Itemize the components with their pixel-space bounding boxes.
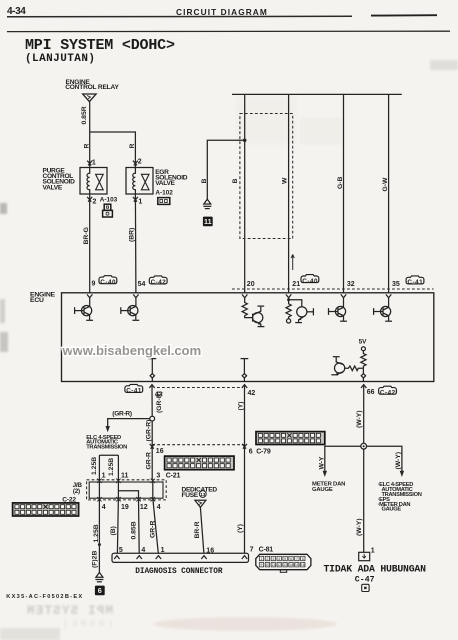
- purge valve symbol: [96, 174, 104, 190]
- wire pin 35 to transistor: [388, 298, 390, 308]
- svg-text:C-40: C-40: [100, 279, 116, 286]
- svg-text:CONTROL RELAY: CONTROL RELAY: [65, 84, 119, 91]
- terminal box C-47: [359, 552, 370, 560]
- connector label C-41 at pin 43: [125, 384, 143, 394]
- svg-text:MPI SYSTEM: MPI SYSTEM: [27, 604, 113, 618]
- svg-text:TIDAK ADA HUBUNGAN: TIDAK ADA HUBUNGAN: [324, 564, 427, 575]
- svg-text:A-102: A-102: [155, 189, 173, 196]
- svg-text:2: 2: [266, 557, 268, 561]
- svg-text:VALVE: VALVE: [43, 184, 63, 191]
- svg-text:1.25B: 1.25B: [93, 524, 100, 542]
- wire pin 54 to transistor: [135, 298, 137, 307]
- svg-text:13: 13: [283, 563, 287, 567]
- connector icon A-103: [103, 204, 113, 217]
- svg-text:66: 66: [367, 389, 375, 396]
- wire GR-R continues: [151, 421, 153, 480]
- svg-text:C-81: C-81: [259, 547, 274, 554]
- dashed connector row to C-79: [152, 444, 244, 446]
- svg-text:(W-Y): (W-Y): [395, 452, 402, 470]
- transistor Q7: [331, 357, 344, 375]
- svg-text:MPI SYSTEM <DOHC>: MPI SYSTEM <DOHC>: [25, 37, 175, 54]
- pin 21 entry arrow: [286, 294, 291, 297]
- svg-text:KX35-AC-F0502B-EX: KX35-AC-F0502B-EX: [6, 594, 82, 600]
- transistor Q6: [374, 306, 392, 321]
- wire W to ECU pin 21: [288, 94, 290, 292]
- svg-text:C-40: C-40: [302, 278, 318, 285]
- svg-text:15: 15: [295, 563, 299, 567]
- wire B to ECU pin 20: [244, 94, 246, 292]
- svg-text:11: 11: [272, 563, 276, 567]
- junction block inner box: [89, 482, 163, 498]
- transistor Q4: [289, 300, 314, 323]
- branch wire to ELC transmission: [108, 419, 150, 427]
- resistor R1 on pin 20: [242, 298, 253, 318]
- svg-text:6: 6: [249, 449, 253, 456]
- connector strip C-22: [13, 503, 79, 516]
- svg-text:C-41: C-41: [407, 279, 423, 286]
- svg-text:(Y): (Y): [238, 401, 245, 410]
- branch arrowhead: [106, 426, 110, 432]
- ground symbol 11: [203, 199, 211, 208]
- wire B to diagnosis pin 5: [117, 498, 118, 553]
- svg-text:16: 16: [206, 547, 214, 554]
- svg-text:2: 2: [138, 158, 142, 165]
- svg-text:16: 16: [301, 563, 305, 567]
- wire pin 32 to transistor: [343, 298, 345, 308]
- svg-text:1: 1: [161, 547, 165, 554]
- connector strip C-21: [165, 456, 234, 470]
- junction node pin 21: [287, 298, 290, 301]
- resistor R2 on pin 21: [286, 298, 291, 319]
- internal stub to pin 42: [241, 359, 249, 382]
- svg-text:13: 13: [200, 492, 206, 497]
- svg-text:19: 19: [121, 504, 129, 511]
- wire GR-R to diagnosis pin 1: [153, 498, 159, 553]
- svg-text:3: 3: [156, 473, 160, 480]
- wire W-Y continues down: [363, 449, 365, 552]
- svg-text:(W-Y): (W-Y): [356, 518, 363, 536]
- svg-text:32: 32: [347, 281, 355, 288]
- connector strip C-79: [256, 432, 325, 445]
- svg-text:54: 54: [138, 281, 146, 288]
- EGR valve coil: [133, 168, 136, 195]
- svg-text:1: 1: [102, 472, 106, 479]
- purge valve coil: [87, 168, 90, 195]
- pin 54 entry arrow: [133, 294, 138, 297]
- svg-text:W-Y: W-Y: [319, 456, 326, 470]
- wire W-Y from pin 66: [363, 385, 365, 444]
- transistor Q2: [121, 306, 139, 321]
- svg-text:1: 1: [138, 199, 142, 206]
- ECU bottom dashed pin row: [157, 387, 240, 389]
- dashed harness box: [240, 114, 293, 239]
- svg-text:1: 1: [261, 557, 263, 561]
- wire 0.85B to diagnosis pin 4: [138, 498, 141, 553]
- svg-text:4-34: 4-34: [7, 6, 26, 17]
- continuation arrow beside wire W: [291, 255, 294, 271]
- ECU connector dashed row: [232, 288, 434, 290]
- terminal circle below R2: [287, 319, 291, 323]
- svg-text:42: 42: [248, 390, 256, 397]
- svg-text:2: 2: [93, 199, 97, 206]
- svg-text:GAUGE: GAUGE: [312, 487, 333, 493]
- svg-text:5: 5: [284, 557, 286, 561]
- svg-text:10: 10: [266, 563, 270, 567]
- connector icon A-102: [158, 198, 170, 205]
- svg-text:(W-Y): (W-Y): [356, 410, 363, 428]
- svg-text:5: 5: [119, 547, 123, 554]
- connector icon C-47: [362, 584, 369, 591]
- wire 0.85R from relay: [89, 102, 91, 132]
- connector label C-40 at pin 21: [301, 275, 319, 285]
- svg-text:7: 7: [296, 557, 298, 561]
- header underline left segment: [7, 15, 352, 18]
- svg-text:(BR): (BR): [128, 228, 135, 242]
- branch wire to ELC EPS meter: [367, 446, 402, 471]
- svg-text:9: 9: [92, 281, 96, 288]
- svg-text:(F)2B: (F)2B: [91, 551, 98, 568]
- svg-text:9: 9: [261, 563, 263, 567]
- svg-text:DIAGNOSIS CONNECTOR: DIAGNOSIS CONNECTOR: [135, 568, 223, 576]
- svg-text:6: 6: [98, 586, 102, 595]
- svg-text:11: 11: [204, 217, 212, 226]
- svg-text:R: R: [83, 144, 90, 149]
- svg-text:BR-G: BR-G: [83, 227, 90, 244]
- connector label C-42 at pin 54: [149, 276, 167, 286]
- EGR solenoid valve box: [126, 168, 153, 195]
- transistor Q1: [75, 306, 93, 321]
- svg-text:21: 21: [292, 281, 300, 288]
- svg-text:(2): (2): [73, 488, 80, 495]
- resistor R3 below 5V: [361, 351, 366, 369]
- wire 1.25B to ground 6: [98, 498, 100, 572]
- svg-text:FUSE: FUSE: [182, 492, 199, 499]
- svg-text:1: 1: [371, 547, 375, 554]
- engine ECU box: [62, 293, 434, 382]
- svg-text:4: 4: [102, 504, 106, 511]
- svg-text:16: 16: [156, 448, 164, 455]
- svg-text:6: 6: [290, 557, 292, 561]
- svg-text:(B): (B): [110, 526, 117, 535]
- diagnosis pin entries: [114, 556, 119, 559]
- junction circle on GR-R: [150, 416, 155, 421]
- svg-text:4: 4: [141, 547, 145, 554]
- svg-text:0.85B: 0.85B: [131, 521, 138, 539]
- pin 9 entry arrow: [87, 294, 92, 297]
- wire BR to ECU pin 54: [134, 194, 137, 293]
- inline connector tick at C-79: [242, 444, 247, 449]
- wire G-W to ECU pin 35: [388, 94, 390, 292]
- svg-text:0.85R: 0.85R: [81, 106, 88, 124]
- svg-text:8: 8: [302, 557, 304, 561]
- svg-text:35: 35: [392, 281, 400, 288]
- junction dot: [98, 543, 101, 546]
- purge control solenoid valve box: [80, 168, 107, 195]
- top bus wire: [232, 93, 402, 95]
- pin 32 entry arrow: [341, 294, 346, 297]
- OBD connector icon C-81: [256, 554, 311, 572]
- svg-text:C-47: C-47: [355, 576, 375, 585]
- transistor Q5: [329, 306, 347, 321]
- pin 42 exit arrow: [242, 385, 247, 388]
- svg-text:C-41: C-41: [126, 388, 142, 395]
- ground number 6: [95, 586, 105, 596]
- svg-text:4: 4: [278, 557, 280, 561]
- dedicated fuse triangle: [195, 500, 206, 507]
- 5V terminal circle: [361, 347, 365, 351]
- svg-text:12: 12: [277, 563, 281, 567]
- ground number 11: [203, 217, 213, 227]
- svg-text:TRANSMISSION: TRANSMISSION: [86, 444, 127, 450]
- svg-text:7: 7: [250, 547, 254, 554]
- svg-text:GR-R: GR-R: [146, 452, 153, 469]
- svg-text:www.bisabengkel.com: www.bisabengkel.com: [62, 343, 202, 358]
- svg-text:(GR-R): (GR-R): [146, 420, 153, 442]
- svg-text:B: B: [232, 179, 239, 184]
- connector label C-41 at pin 35: [406, 276, 424, 286]
- meter branch arrowhead: [323, 471, 327, 477]
- internal stub to pin 43: [148, 359, 156, 382]
- wire pin 9 to transistor: [89, 298, 91, 307]
- svg-text:(LANJUTAN): (LANJUTAN): [25, 53, 95, 65]
- svg-text:VALVE: VALVE: [155, 180, 175, 187]
- header underline right segment: [371, 14, 437, 16]
- svg-text:C-42: C-42: [380, 390, 396, 397]
- header rule full width: [7, 30, 450, 32]
- svg-text:R: R: [129, 144, 136, 149]
- pin 2 of EGR valve: [133, 161, 138, 166]
- wire 1.25B into J/B pin 1: [98, 455, 100, 482]
- svg-text:5V: 5V: [359, 338, 368, 345]
- svg-text:C-21: C-21: [166, 473, 181, 480]
- svg-text:4: 4: [157, 504, 161, 511]
- J/B pin cross marks: [97, 479, 101, 483]
- wire to pin 66 with diamond: [362, 368, 364, 373]
- junction circle pin 66 wire: [361, 443, 367, 449]
- bracket wire from ELC transmission: [99, 454, 118, 456]
- pin 43 exit arrow: [149, 385, 154, 388]
- svg-text:11: 11: [121, 472, 129, 479]
- fuse number 13 circled: [199, 491, 206, 498]
- svg-text:W: W: [281, 177, 288, 184]
- svg-text:G-B: G-B: [337, 176, 344, 189]
- svg-text:1.25B: 1.25B: [108, 458, 115, 476]
- branch wire to meter and gauge: [325, 446, 361, 471]
- wire GR-R from pin 43: [151, 385, 153, 417]
- transistor Q3: [253, 306, 265, 327]
- svg-text:(Y): (Y): [237, 524, 244, 533]
- EGR valve symbol: [141, 174, 149, 190]
- right branch arrowhead: [400, 471, 404, 477]
- svg-text:C-42: C-42: [151, 279, 167, 286]
- engine control relay connector triangle: [83, 94, 96, 102]
- svg-text:B: B: [201, 179, 208, 184]
- diagnosis connector box: [112, 553, 249, 562]
- svg-text:A-103: A-103: [100, 196, 118, 203]
- svg-text:1.25B: 1.25B: [91, 457, 98, 475]
- wire B branch to ground: [207, 140, 244, 199]
- wire Y from pin 42: [244, 385, 246, 554]
- svg-text:14: 14: [289, 563, 293, 567]
- pin 1 of purge valve: [87, 161, 92, 166]
- svg-text:GAUGE: GAUGE: [382, 507, 402, 513]
- svg-text:C-79: C-79: [256, 449, 271, 456]
- svg-text:12: 12: [140, 504, 148, 511]
- svg-text:(GR-R): (GR-R): [156, 391, 163, 413]
- wire G-B to ECU pin 32: [343, 94, 345, 292]
- svg-text:BR-R: BR-R: [194, 521, 201, 538]
- pin 2 below purge valve: [87, 197, 92, 202]
- inline connector tick pin 16: [150, 444, 155, 449]
- svg-text:20: 20: [247, 281, 255, 288]
- svg-text:(GR-R): (GR-R): [112, 410, 132, 417]
- svg-text:G-W: G-W: [382, 177, 389, 192]
- pin 1 below EGR valve: [133, 197, 138, 202]
- ground symbol 6: [95, 572, 103, 581]
- junction block J/B 2 dashed box: [87, 480, 167, 500]
- svg-text:ECU: ECU: [30, 297, 44, 304]
- pin 20 entry arrow: [242, 294, 247, 297]
- J/B internal wires: [98, 482, 100, 498]
- svg-text:1: 1: [92, 160, 96, 167]
- junction node on wire B: [243, 139, 247, 143]
- svg-text:GR-R: GR-R: [149, 521, 156, 538]
- wire BR-R to diagnosis pin 16: [200, 507, 204, 553]
- connector label C-40 at pin 9: [99, 276, 117, 286]
- resistor R4 horizontal: [345, 366, 364, 371]
- connector label C-42 at pin 66: [379, 386, 397, 396]
- svg-text:3: 3: [272, 557, 274, 561]
- pin 35 entry arrow: [386, 294, 391, 297]
- wire BR-G to ECU pin 9: [89, 194, 91, 293]
- wire 1.25B into J/B pin 11: [117, 455, 119, 482]
- pin 66 exit arrow: [361, 385, 366, 388]
- wire branch to both solenoid valves: [90, 132, 136, 168]
